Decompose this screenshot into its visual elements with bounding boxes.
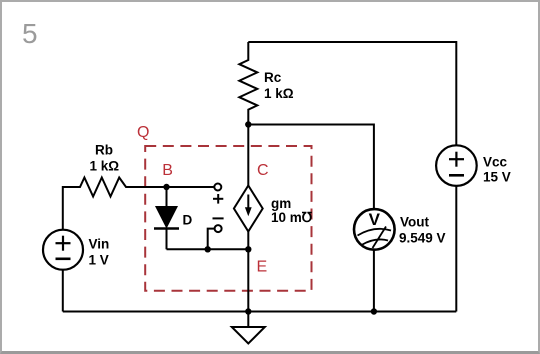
- node B junction: [163, 184, 169, 190]
- junction voltmeter bottom: [371, 308, 377, 314]
- svg-text:5: 5: [22, 18, 38, 49]
- wire Vcc upper vertical: [455, 41, 457, 146]
- label minus sign: [213, 217, 224, 219]
- wire dependent source bottom to node E: [247, 232, 249, 250]
- terminal minus (open circle): [215, 225, 222, 232]
- wire emitter horizontal: [167, 248, 249, 250]
- svg-text:1 V: 1 V: [89, 253, 109, 268]
- junction of minus terminal elbow: [205, 246, 211, 252]
- svg-text:9.549 V: 9.549 V: [399, 231, 446, 246]
- voltage source Vin 1 V: [43, 230, 109, 270]
- svg-text:gm: gm: [271, 196, 291, 211]
- wire Vin bottom to ground rail: [62, 270, 64, 312]
- wire mid rail from node to voltmeter branch: [248, 125, 374, 210]
- svg-text:B: B: [162, 162, 173, 179]
- resistor Rb 1 kOhm: [63, 143, 167, 197]
- svg-text:D: D: [183, 213, 193, 228]
- svg-text:Vout: Vout: [400, 215, 429, 230]
- svg-text:Rc: Rc: [264, 70, 282, 85]
- svg-text:Vin: Vin: [89, 237, 110, 252]
- ground: [232, 312, 265, 344]
- svg-text:V: V: [369, 210, 381, 229]
- svg-text:C: C: [257, 162, 269, 179]
- node E junction: [245, 246, 251, 252]
- node junction below Rc: [245, 121, 251, 127]
- svg-text:E: E: [257, 259, 268, 276]
- junction ground node: [245, 308, 251, 314]
- label plus sign: [213, 194, 223, 204]
- dependent current source gm 10 mmho: [234, 186, 313, 232]
- wire minus terminal elbow: [208, 229, 215, 250]
- wire top rail from Rc top to Vcc branch: [248, 41, 456, 43]
- terminal plus (open circle): [214, 184, 221, 191]
- svg-text:Rb: Rb: [95, 143, 113, 158]
- wire Vcc bottom to ground rail: [455, 186, 457, 312]
- svg-text:Q: Q: [137, 124, 149, 141]
- resistor Rc 1 kOhm: [239, 42, 293, 125]
- svg-text:15 V: 15 V: [483, 170, 511, 185]
- voltmeter Vout: [354, 209, 446, 250]
- svg-text:1 kΩ: 1 kΩ: [90, 159, 120, 174]
- wire Rb left down to Vin: [62, 186, 64, 230]
- voltage source Vcc 15 V: [436, 145, 511, 186]
- wire B to plus terminal: [167, 186, 214, 188]
- wire voltmeter bottom: [373, 250, 375, 312]
- svg-text:1 kΩ: 1 kΩ: [264, 86, 294, 101]
- diode D: [154, 187, 193, 249]
- svg-text:Vcc: Vcc: [483, 155, 508, 170]
- wire bottom rail: [63, 311, 457, 313]
- wire node C vertical into dependent source: [247, 125, 249, 187]
- svg-text:10 m℧: 10 m℧: [271, 210, 313, 225]
- transistor model box Q (red dashed): [145, 146, 311, 291]
- wire node E down to ground rail: [247, 249, 249, 311]
